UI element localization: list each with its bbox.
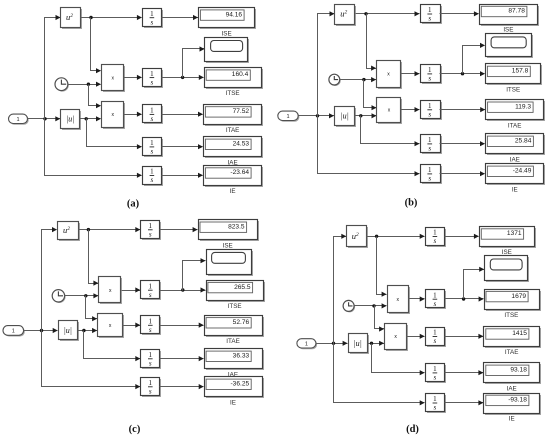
svg-text:s: s	[428, 111, 431, 119]
svg-text:1: 1	[149, 351, 153, 359]
input port 1 (b)	[278, 111, 300, 122]
display block IE (a) value -23.64	[204, 166, 264, 188]
wire: trunk up to u^2 block	[334, 234, 347, 344]
label IAE (a)	[228, 160, 238, 167]
display block ITSE (a) value 160.4	[205, 68, 264, 90]
wire: Product1 to ITSE integrator	[409, 296, 425, 301]
abs block |u| (a)	[61, 110, 82, 131]
svg-text:1: 1	[150, 10, 154, 18]
label ISE (b)	[503, 27, 513, 34]
svg-text:-93.18: -93.18	[508, 397, 527, 404]
integrator 1/s (ISE c)	[141, 221, 162, 241]
wire: trunk up to u^2 block	[45, 15, 61, 119]
display block ITSE (b) value 157.8	[486, 64, 543, 86]
label IE (a)	[230, 188, 236, 195]
product block P1 (b)	[377, 61, 403, 90]
caption (c)	[129, 424, 141, 435]
svg-text:1371: 1371	[507, 230, 522, 237]
math function block u^2 (b)	[335, 5, 357, 27]
svg-text:1: 1	[149, 318, 153, 326]
wire: clock branch to Product2 input	[86, 296, 98, 322]
wire: branch up to Scope	[464, 267, 485, 299]
svg-text:1: 1	[428, 102, 432, 110]
wire: clock branch to Product2 input	[375, 306, 385, 332]
svg-text:1: 1	[149, 282, 153, 290]
scope block (a)	[205, 38, 250, 64]
label ISE (a)	[222, 30, 232, 37]
product block P2 (b)	[377, 98, 403, 125]
wire: branch up to Scope	[463, 43, 486, 74]
label ITSE (d)	[504, 312, 518, 319]
scope block (b)	[486, 34, 534, 59]
display block IAE (b) value 25.84	[486, 134, 546, 156]
integrator 1/s (ITSE d)	[426, 290, 447, 310]
integrator 1/s (ITAE a)	[143, 105, 164, 125]
integrator 1/s (ISE a)	[143, 9, 164, 29]
label IE (b)	[512, 187, 518, 194]
wire: u^2 to ISE integrator	[81, 15, 142, 20]
integrator 1/s (ITAE c)	[141, 316, 162, 336]
display block IAE (c) value 36.33	[205, 349, 265, 371]
svg-text:s: s	[149, 326, 152, 334]
wire: IAE integrator to display	[162, 144, 204, 149]
svg-text:ITAE: ITAE	[508, 122, 522, 129]
svg-text:ITSE: ITSE	[226, 90, 240, 97]
svg-text:-36.25: -36.25	[230, 381, 249, 388]
scope block (d)	[485, 256, 530, 283]
junction: clock branch	[372, 304, 375, 307]
product block P1 (a)	[102, 65, 126, 93]
svg-text:s: s	[149, 360, 152, 368]
wire: clock branch to Product2 input	[364, 80, 377, 111]
svg-text:(d): (d)	[406, 424, 419, 435]
svg-text:ITAE: ITAE	[226, 127, 240, 134]
svg-text:1: 1	[433, 395, 437, 403]
wire: u^2 to ISE integrator	[356, 11, 420, 16]
wire: ITSE integrator to display	[445, 296, 484, 301]
svg-text:-24.49: -24.49	[513, 168, 532, 175]
svg-text:1: 1	[428, 166, 432, 174]
svg-text:1: 1	[433, 229, 437, 237]
clock block (d)	[343, 300, 355, 312]
junction: abs output branch	[82, 329, 85, 332]
wire: u^2 branch to Product1 input	[377, 237, 387, 297]
display block IE (c) value -36.25	[205, 377, 265, 399]
svg-text:1: 1	[433, 291, 437, 299]
integrator 1/s (ITAE b)	[421, 101, 443, 121]
svg-text:s: s	[151, 18, 154, 26]
svg-text:1415: 1415	[512, 330, 527, 337]
svg-text:24.53: 24.53	[233, 141, 250, 148]
svg-text:s: s	[434, 374, 437, 382]
svg-text:1: 1	[428, 66, 432, 74]
display block ITAE (b) value 119.3	[486, 100, 546, 122]
label ISE (d)	[502, 249, 512, 256]
product block P2 (c)	[98, 314, 125, 339]
display block ISE (d) value 1371	[480, 227, 537, 249]
wire: IE integrator to display	[160, 384, 204, 389]
clock block (a)	[55, 78, 69, 92]
input port 1 (a)	[9, 114, 29, 125]
wire: abs to Product2 input	[368, 341, 385, 346]
junction: clock branch	[84, 294, 87, 297]
wire: ISE integrator to display	[160, 227, 198, 232]
clock block (b)	[329, 74, 341, 86]
svg-text:s: s	[428, 15, 431, 23]
integrator 1/s (IE c)	[141, 378, 162, 398]
wire: ISE integrator to display	[440, 11, 479, 16]
svg-text:s: s	[151, 148, 154, 156]
wire: abs to Product2 input	[80, 116, 102, 121]
svg-text:s: s	[434, 404, 437, 412]
svg-text:IAE: IAE	[507, 386, 517, 393]
wire: Product1 to ITSE integrator	[122, 287, 141, 292]
wire: ITAE integrator to display	[440, 107, 486, 112]
product block P1 (d)	[388, 286, 411, 315]
junction: u^2 output branch	[89, 16, 92, 19]
wire: clock to Product1 input	[68, 82, 102, 87]
wire: Product2 to ITAE integrator	[123, 323, 141, 328]
display block IAE (a) value 24.53	[204, 137, 264, 159]
junction: input trunk	[40, 329, 43, 332]
display block ITAE (a) value 77.52	[204, 105, 264, 127]
wire: branch up to Scope	[183, 46, 205, 77]
integrator 1/s (ITSE a)	[143, 69, 164, 89]
integrator 1/s (IAE d)	[426, 364, 447, 384]
svg-text:s: s	[151, 115, 154, 123]
svg-text:(b): (b)	[405, 198, 418, 209]
svg-text:1: 1	[149, 222, 153, 230]
junction: u^2 output branch	[364, 12, 367, 15]
svg-text:ISE: ISE	[503, 27, 513, 34]
junction: abs output branch	[359, 114, 362, 117]
integrator 1/s (IE b)	[421, 165, 443, 185]
wire: ITAE integrator to display	[445, 334, 484, 339]
caption (d)	[406, 424, 419, 435]
caption (b)	[405, 198, 418, 209]
svg-text:ITSE: ITSE	[228, 303, 242, 310]
display block ITSE (c) value 265.5	[207, 281, 266, 303]
svg-text:1: 1	[149, 379, 153, 387]
product block P2 (d)	[385, 324, 409, 352]
label ITAE (c)	[226, 338, 240, 345]
label ITAE (d)	[505, 349, 519, 356]
label ISE (c)	[223, 242, 233, 249]
wire: trunk down to IE integrator	[318, 116, 420, 177]
svg-text:IE: IE	[509, 416, 515, 423]
math function block u^2 (c)	[58, 222, 81, 242]
svg-text:(a): (a)	[127, 199, 140, 210]
integrator 1/s (IAE b)	[421, 135, 443, 155]
wire: ITSE integrator to display	[160, 287, 206, 292]
product block P2 (a)	[102, 102, 126, 130]
abs block |u| (c)	[59, 321, 80, 342]
display block ITAE (d) value 1415	[484, 327, 542, 349]
svg-text:265.5: 265.5	[234, 284, 251, 291]
svg-text:s: s	[151, 176, 154, 184]
wire: u^2 to ISE integrator	[367, 234, 425, 239]
svg-text:s: s	[149, 388, 152, 396]
junction: input trunk	[43, 117, 46, 120]
junction: clock branch	[87, 83, 90, 86]
svg-text:ITSE: ITSE	[504, 312, 518, 319]
label IE (c)	[230, 400, 236, 407]
display block IE (d) value -93.18	[484, 394, 542, 416]
wire: branch up to Scope	[183, 258, 206, 290]
wire: clock branch to Product2 input	[89, 85, 102, 109]
label IE (d)	[509, 416, 515, 423]
integrator 1/s (IAE c)	[141, 350, 162, 370]
junction: u^2 output branch	[375, 235, 378, 238]
svg-text:IAE: IAE	[510, 157, 520, 164]
wire: u^2 branch to Product1 input	[89, 230, 99, 286]
svg-text:119.3: 119.3	[515, 103, 531, 110]
svg-text:1: 1	[433, 329, 437, 337]
wire: trunk up to u^2 block	[42, 227, 58, 331]
abs block |u| (d)	[349, 334, 370, 355]
svg-text:1: 1	[150, 168, 154, 176]
svg-text:1: 1	[305, 341, 308, 347]
wire: abs branch to IAE integrator	[372, 344, 425, 376]
scope block (c)	[207, 250, 254, 277]
wire: clock to Product1 input	[340, 77, 377, 82]
svg-text:1: 1	[286, 114, 289, 120]
svg-text:s: s	[149, 291, 152, 299]
wire: trunk down to IE integrator	[334, 344, 425, 406]
wire: Product2 to ITAE integrator	[401, 107, 420, 112]
label ITAE (a)	[226, 127, 240, 134]
svg-text:87.78: 87.78	[508, 8, 525, 15]
svg-text:|u|: |u|	[340, 112, 348, 121]
label ITAE (b)	[508, 122, 522, 129]
wire: ITSE integrator to display	[440, 71, 486, 76]
svg-text:1: 1	[16, 117, 19, 123]
display block ISE (a) value 94.16	[199, 8, 257, 30]
display block ISE (b) value 87.78	[480, 5, 540, 27]
label ITSE (b)	[506, 87, 520, 94]
wire: IE integrator to display	[445, 400, 484, 405]
svg-text:1: 1	[150, 107, 154, 115]
svg-text:1: 1	[428, 136, 432, 144]
svg-text:1: 1	[12, 329, 15, 335]
label IAE (c)	[228, 372, 238, 379]
junction: ITSE display wire branch	[181, 76, 184, 79]
wire: trunk down to IE integrator	[42, 331, 141, 390]
svg-text:IE: IE	[230, 400, 236, 407]
display block ITSE (d) value 1679	[485, 290, 542, 312]
svg-text:s: s	[151, 78, 154, 86]
svg-text:157.8: 157.8	[512, 68, 529, 75]
junction: abs output branch	[85, 117, 88, 120]
wire: IE integrator to display	[162, 173, 204, 178]
wire: abs branch to IAE integrator	[87, 119, 142, 150]
wire: ISE integrator to display	[162, 15, 199, 20]
integrator 1/s (IE a)	[143, 167, 164, 187]
junction: ITSE display wire branch	[461, 72, 464, 75]
wire: Product1 to ITSE integrator	[401, 71, 420, 76]
display block ITAE (c) value 52.76	[205, 316, 265, 338]
input port 1 (d)	[297, 339, 317, 349]
junction: ITSE display wire branch	[462, 297, 465, 300]
math function block u^2 (a)	[61, 8, 83, 30]
wire: u^2 branch to Product1 input	[91, 18, 102, 74]
svg-text:36.33: 36.33	[233, 353, 250, 360]
svg-text:93.18: 93.18	[510, 367, 527, 374]
junction: abs output branch	[370, 342, 373, 345]
svg-text:25.84: 25.84	[515, 138, 532, 145]
svg-text:160.4: 160.4	[232, 71, 249, 78]
svg-text:|u|: |u|	[64, 326, 72, 335]
label ITSE (a)	[226, 90, 240, 97]
wire: input port to Abs block	[24, 328, 58, 333]
integrator 1/s (IE d)	[426, 394, 447, 414]
wire: ITAE integrator to display	[162, 112, 204, 117]
wire: trunk down to IE integrator	[45, 119, 142, 178]
svg-text:77.52: 77.52	[233, 108, 250, 115]
svg-text:823.5: 823.5	[228, 223, 245, 230]
svg-text:52.76: 52.76	[233, 319, 250, 326]
svg-text:IE: IE	[230, 188, 236, 195]
svg-text:94.16: 94.16	[226, 11, 243, 18]
svg-text:ITAE: ITAE	[505, 349, 519, 356]
junction: input trunk	[316, 114, 319, 117]
svg-text:1: 1	[150, 70, 154, 78]
svg-text:1: 1	[428, 6, 432, 14]
svg-text:ISE: ISE	[223, 242, 233, 249]
svg-text:1679: 1679	[511, 293, 526, 300]
wire: IAE integrator to display	[440, 141, 486, 146]
wire: trunk up to u^2 block	[318, 11, 335, 115]
wire: IAE integrator to display	[445, 370, 484, 375]
wire: u^2 to ISE integrator	[79, 227, 141, 232]
input port 1 (c)	[3, 326, 25, 337]
wire: ISE integrator to display	[445, 234, 479, 239]
integrator 1/s (ITAE d)	[426, 328, 447, 348]
svg-text:s: s	[428, 175, 431, 183]
wire: ITAE integrator to display	[160, 323, 204, 328]
wire: Product1 to ITSE integrator	[124, 75, 142, 80]
integrator 1/s (IAE a)	[143, 138, 164, 158]
display block IE (b) value -24.49	[486, 164, 546, 186]
integrator 1/s (ISE b)	[421, 5, 443, 25]
svg-text:s: s	[428, 145, 431, 153]
svg-text:s: s	[149, 231, 152, 239]
integrator 1/s (ITSE c)	[141, 281, 162, 301]
clock block (c)	[52, 290, 65, 303]
wire: input port to Abs block	[28, 116, 61, 121]
svg-text:-23.64: -23.64	[230, 169, 249, 176]
label IAE (b)	[510, 157, 520, 164]
abs block |u| (b)	[335, 107, 357, 128]
wire: abs to Product2 input	[355, 113, 377, 118]
wire: IE integrator to display	[440, 171, 486, 176]
wire: input port to Abs block	[316, 341, 348, 346]
wire: abs branch to IAE integrator	[361, 116, 420, 147]
svg-text:s: s	[434, 237, 437, 245]
math function block u^2 (d)	[347, 226, 369, 249]
svg-text:ITSE: ITSE	[506, 87, 520, 94]
wire: IAE integrator to display	[160, 356, 204, 361]
integrator 1/s (ISE d)	[426, 228, 447, 248]
wire: abs to Product2 input	[78, 328, 98, 333]
wire: ITSE integrator to display	[162, 75, 204, 80]
product block P1 (c)	[99, 277, 123, 305]
svg-text:IE: IE	[512, 187, 518, 194]
integrator 1/s (ITSE b)	[421, 65, 443, 85]
svg-text:1: 1	[433, 365, 437, 373]
junction: ITSE display wire branch	[181, 288, 184, 291]
svg-text:s: s	[434, 337, 437, 345]
wire: clock to Product1 input	[355, 303, 387, 308]
svg-text:ISE: ISE	[222, 30, 232, 37]
display block ISE (c) value 823.5	[199, 220, 260, 242]
caption (a)	[127, 199, 140, 210]
svg-text:|u|: |u|	[353, 339, 361, 348]
wire: u^2 branch to Product1 input	[367, 14, 377, 71]
junction: input trunk	[332, 342, 335, 345]
svg-text:s: s	[434, 300, 437, 308]
wire: input port to Abs block	[299, 113, 335, 118]
wire: Product2 to ITAE integrator	[407, 334, 425, 339]
svg-text:ITAE: ITAE	[226, 338, 240, 345]
svg-text:(c): (c)	[129, 424, 141, 435]
label ITSE (c)	[228, 303, 242, 310]
wire: clock to Product1 input	[65, 293, 99, 298]
label IAE (d)	[507, 386, 517, 393]
wire: abs branch to IAE integrator	[84, 331, 141, 362]
svg-text:1: 1	[150, 139, 154, 147]
display block IAE (d) value 93.18	[484, 363, 542, 385]
wire: Product2 to ITAE integrator	[124, 112, 142, 117]
svg-text:|u|: |u|	[66, 115, 74, 124]
svg-text:s: s	[428, 75, 431, 83]
junction: u^2 output branch	[87, 228, 90, 231]
junction: clock branch	[362, 78, 365, 81]
